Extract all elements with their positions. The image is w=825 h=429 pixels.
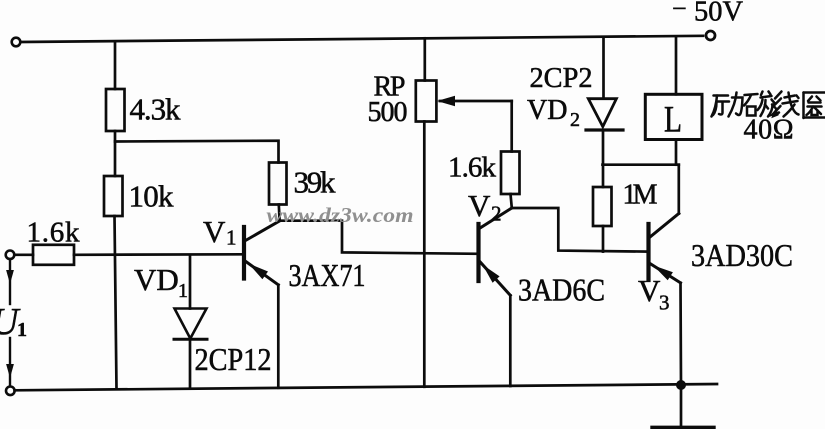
resistor 1M (593, 187, 612, 226)
wire top rail down to L (675, 38, 678, 95)
wire 10k down to bottom rail (115, 216, 117, 389)
svg-text:V: V (468, 188, 491, 223)
transistor V1 (3AX71) (244, 221, 280, 388)
svg-text:1: 1 (178, 280, 188, 302)
label excitation-coil (hand-drawn CJK) (712, 92, 825, 119)
svg-text:1.6k: 1.6k (448, 152, 497, 184)
svg-text:50V: 50V (694, 0, 743, 28)
svg-text:V: V (638, 273, 661, 308)
svg-text:3AD6C: 3AD6C (518, 272, 605, 308)
wire junction to 39k branch (115, 141, 279, 163)
resistor 39k (269, 163, 287, 205)
svg-text:www.dz3w.com: www.dz3w.com (267, 203, 414, 227)
svg-text:1: 1 (226, 226, 237, 250)
diode VD2 (586, 99, 623, 165)
svg-text:3: 3 (659, 291, 670, 315)
CJK li (excite) (712, 93, 743, 117)
wire 1M to V3 base (602, 226, 605, 252)
transistor V3 (3AD30C) (649, 214, 682, 386)
resistor 4.3k (106, 89, 125, 131)
resistor 10k (104, 176, 123, 216)
svg-text:10k: 10k (129, 179, 175, 214)
CJK xian (wire) (773, 92, 799, 117)
svg-text:1M: 1M (623, 180, 658, 211)
wire bottom rail (15, 384, 717, 390)
wire VD2/L junction (603, 163, 679, 166)
potentiometer RP 500 (416, 81, 437, 122)
wire V1 collector to V2 base (280, 221, 478, 254)
resistor 1.6k input (33, 245, 74, 265)
svg-text:39k: 39k (294, 165, 337, 200)
diode VD1 (174, 255, 207, 388)
wire V2 collector to V3 base (512, 208, 648, 252)
wire RP bottom to bottom rail (423, 122, 426, 387)
svg-text:2: 2 (570, 109, 580, 131)
wire top rail down to VD2 (602, 38, 605, 99)
wire 1.6k to V1 base (74, 253, 243, 256)
CJK quan (coil, cut off) (804, 93, 825, 119)
svg-text:1: 1 (17, 319, 27, 341)
terminal top-right (-50V) (706, 31, 715, 40)
inductor L box (645, 94, 702, 139)
svg-text:VD: VD (527, 95, 567, 126)
svg-text:1.6k: 1.6k (27, 217, 81, 249)
svg-text:V: V (203, 214, 226, 249)
svg-text:3AD30C: 3AD30C (691, 237, 793, 273)
svg-text:3AX71: 3AX71 (289, 257, 366, 293)
wire 1.6k to V2 collector node (511, 194, 512, 208)
wire terminal to 1.6k (14, 253, 33, 256)
wire 4.3k to 10k (114, 131, 117, 176)
terminal top-left (12, 38, 21, 47)
node U1 arrow lower (6, 338, 14, 386)
svg-text:VD: VD (134, 262, 179, 297)
wire 39k to V1 collector node (277, 205, 281, 221)
wire junction down to 1M (602, 165, 605, 187)
svg-text:2CP12: 2CP12 (195, 341, 272, 377)
wire L to junction (675, 140, 678, 165)
svg-text:2: 2 (491, 202, 502, 226)
svg-text:500: 500 (368, 97, 408, 128)
resistor 1.6k middle (501, 152, 520, 195)
svg-text:2CP2: 2CP2 (530, 62, 593, 94)
wire junction down to V3 collector (677, 165, 680, 214)
terminal input bottom (6, 387, 15, 396)
node U1 arrow upper (6, 259, 14, 304)
CJK ci (magnet) (744, 92, 778, 117)
wire from top rail down to R 4.3k (114, 42, 117, 90)
ground (680, 385, 683, 427)
wire top rail (21, 36, 704, 42)
wire top rail down to RP (423, 38, 426, 80)
terminal input top (6, 251, 15, 260)
transistor V2 (3AD6C) (479, 208, 512, 386)
wire RP wiper (437, 96, 512, 152)
svg-text:−: − (672, 0, 687, 23)
svg-text:L: L (664, 100, 682, 141)
svg-text:4.3k: 4.3k (130, 92, 182, 127)
node junction dot bottom-right (676, 380, 686, 390)
svg-text:40Ω: 40Ω (744, 115, 794, 146)
